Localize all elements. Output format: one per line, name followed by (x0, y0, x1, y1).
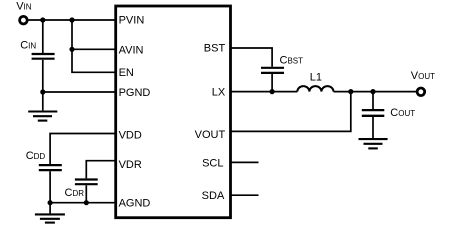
svg-text:CDD: CDD (26, 150, 46, 162)
svg-text:BST: BST (204, 43, 226, 55)
svg-text:AVIN: AVIN (119, 44, 144, 56)
wire SDA stub (231, 194, 259, 196)
svg-text:L1: L1 (310, 71, 322, 83)
wire inductor to VOUT terminal (334, 91, 417, 93)
op-amp U1 (116, 6, 231, 218)
capacitor CBST (261, 68, 284, 73)
wire CDD branch lower (49, 171, 51, 203)
svg-text:LX: LX (212, 87, 226, 99)
wire CDR branch lower (85, 185, 87, 202)
svg-text:VDR: VDR (119, 159, 142, 171)
svg-text:VIN: VIN (16, 1, 32, 13)
terminal VOUT (417, 88, 425, 96)
node junction VIN/CIN (40, 17, 45, 22)
svg-text:SDA: SDA (202, 190, 225, 202)
wire VDD and CDD branch upper (50, 134, 116, 165)
terminal VIN (20, 16, 28, 24)
wire feedback from LX node to VOUT pin (231, 92, 351, 132)
ground GND3 (359, 139, 388, 148)
wire CBST branch lower (271, 74, 273, 92)
svg-text:CIN: CIN (20, 40, 36, 52)
wire to ground 1 (42, 92, 44, 110)
wire SCL stub (231, 161, 259, 163)
capacitor CDR (75, 180, 98, 185)
capacitor CDD (39, 165, 62, 170)
node junction PGND (40, 89, 45, 94)
node junction AGND/CDD (48, 200, 53, 205)
svg-text:VOUT: VOUT (411, 70, 435, 82)
node junction VIN/AVIN (69, 17, 74, 22)
wire LX to inductor (231, 91, 298, 93)
node junction AVIN (69, 47, 74, 52)
node junction LX/feedback (348, 89, 353, 94)
svg-text:VDD: VDD (119, 130, 142, 142)
wire PGND (43, 91, 116, 93)
node junction LX/CBST (270, 89, 275, 94)
svg-text:PVIN: PVIN (119, 15, 145, 27)
svg-text:SCL: SCL (202, 157, 223, 169)
wire COUT branch lower (372, 117, 374, 138)
svg-text:COUT: COUT (390, 107, 415, 119)
svg-text:EN: EN (119, 67, 134, 79)
wire VIN to PVIN (28, 19, 116, 21)
ground GND2 (35, 214, 65, 222)
node junction LX/COUT (370, 89, 375, 94)
capacitor COUT (362, 110, 385, 116)
svg-text:CDR: CDR (65, 187, 85, 199)
wire VDR and CDR branch upper (86, 161, 115, 179)
wire COUT branch upper (372, 92, 374, 109)
wire to ground 2 (49, 203, 51, 214)
capacitor CIN (32, 54, 55, 59)
wire CIN branch lower (42, 60, 44, 92)
node junction AGND/CDR (84, 200, 89, 205)
svg-text:AGND: AGND (119, 197, 151, 209)
wire AGND (50, 202, 116, 204)
svg-text:PGND: PGND (119, 87, 151, 99)
svg-text:VOUT: VOUT (195, 129, 226, 141)
svg-text:CBST: CBST (280, 54, 304, 66)
ground GND1 (28, 112, 57, 121)
wire AVIN/EN branch and EN (72, 20, 116, 72)
wire BST and CBST branch upper (231, 48, 273, 67)
inductor L1 (297, 86, 333, 92)
wire CIN branch upper (42, 20, 44, 53)
wire AVIN (72, 48, 116, 50)
